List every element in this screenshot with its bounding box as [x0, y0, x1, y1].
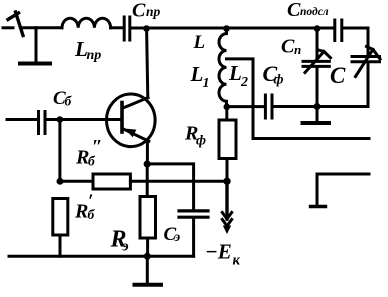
ground antenna	[20, 62, 50, 66]
antenna WA	[3, 12, 23, 36]
label Rb1	[74, 191, 96, 223]
resistor Rf	[219, 107, 236, 182]
label Cf	[263, 61, 284, 88]
wire Ce bottom	[192, 219, 195, 257]
svg-text:ф: ф	[274, 73, 284, 88]
capacitor Cb	[39, 112, 46, 134]
svg-text:С: С	[287, 0, 301, 21]
svg-text:ф: ф	[196, 134, 206, 149]
power -Ek arrow tip	[223, 226, 231, 235]
resistor Re	[140, 164, 156, 256]
wire emitter to Ce	[147, 164, 193, 210]
wire fragment bottom right	[311, 174, 370, 207]
svg-text:пр: пр	[87, 48, 102, 63]
svg-text:L: L	[193, 32, 206, 53]
inductor L coil	[219, 29, 227, 107]
wire top rail	[131, 27, 333, 30]
capacitor Cf	[265, 95, 272, 118]
wire L bottom to Cf	[227, 105, 264, 108]
capacitor Cp variable	[303, 28, 329, 107]
node base	[57, 116, 64, 123]
svg-text:подсл: подсл	[300, 6, 329, 18]
transistor collector stroke	[123, 98, 149, 109]
node collector junction	[143, 25, 150, 32]
node L top	[223, 25, 230, 32]
label Re	[110, 227, 129, 255]
node tank ground	[314, 103, 321, 110]
wire emitter down	[146, 141, 149, 164]
label Cpr	[132, 0, 161, 22]
arrow of Cp	[305, 50, 331, 73]
label -Ek	[205, 240, 241, 269]
wire tap L2	[227, 59, 370, 139]
wire bias vertical	[58, 120, 61, 182]
resistor Rb2	[93, 174, 130, 189]
wire Rb2 left	[60, 180, 93, 183]
node divider	[57, 178, 64, 185]
svg-text:1: 1	[203, 76, 210, 91]
transistor emitter arrowhead	[125, 129, 137, 138]
svg-text:−E: −E	[205, 240, 232, 264]
power -Ek arrow	[222, 181, 231, 226]
wire C lower lead	[367, 63, 370, 107]
svg-text:L: L	[228, 61, 242, 85]
label Rb2	[75, 137, 103, 169]
wire tank bottom rail	[273, 62, 368, 107]
svg-text:б: б	[65, 94, 73, 109]
arrow of C	[356, 47, 381, 77]
node emitter ground	[144, 253, 151, 260]
wire collector	[147, 29, 148, 98]
label Ce	[164, 224, 181, 245]
svg-text:С: С	[281, 36, 295, 58]
transistor base bar	[120, 103, 124, 133]
capacitor C plates	[352, 57, 380, 62]
label Lpr	[74, 37, 101, 63]
svg-text:′: ′	[88, 191, 93, 212]
svg-text:пр: пр	[146, 4, 161, 19]
capacitor trimmer plates	[335, 20, 342, 41]
svg-text:R: R	[74, 201, 88, 223]
wire rail right corner	[343, 28, 368, 56]
svg-text:С: С	[132, 0, 146, 22]
transistor VT circle	[107, 94, 156, 147]
label C trimmer	[287, 0, 329, 21]
wire base lead right	[46, 118, 120, 121]
wire feed	[22, 26, 63, 29]
capacitor Cpr	[124, 17, 130, 40]
label Rf	[184, 123, 206, 149]
label Cp	[281, 36, 301, 58]
svg-text:э: э	[122, 239, 129, 255]
svg-text:к: к	[233, 253, 241, 269]
svg-text:″: ″	[92, 137, 103, 158]
svg-text:2: 2	[240, 75, 248, 90]
node emitter	[144, 160, 151, 167]
label L2	[228, 61, 248, 90]
wire antenna ground drop	[35, 28, 38, 62]
transistor emitter stroke	[123, 129, 149, 142]
node L bottom	[224, 104, 231, 111]
label Cb	[53, 88, 73, 109]
resistor Rb1	[53, 199, 68, 257]
label L1	[190, 62, 210, 91]
ground tank	[303, 107, 330, 124]
svg-text:п: п	[294, 42, 301, 57]
wire base lead left	[7, 118, 37, 121]
ground emitter	[135, 256, 162, 285]
svg-text:С: С	[330, 63, 346, 88]
inductor Lpr	[62, 18, 111, 28]
wire bottom rail	[9, 255, 194, 258]
node Rf bottom	[223, 178, 230, 185]
wire	[111, 26, 123, 29]
svg-text:э: э	[174, 229, 181, 244]
capacitor Ce	[179, 211, 208, 217]
wire Rb2 right	[130, 180, 227, 183]
svg-text:L: L	[190, 62, 204, 86]
node Cp top	[314, 25, 321, 32]
